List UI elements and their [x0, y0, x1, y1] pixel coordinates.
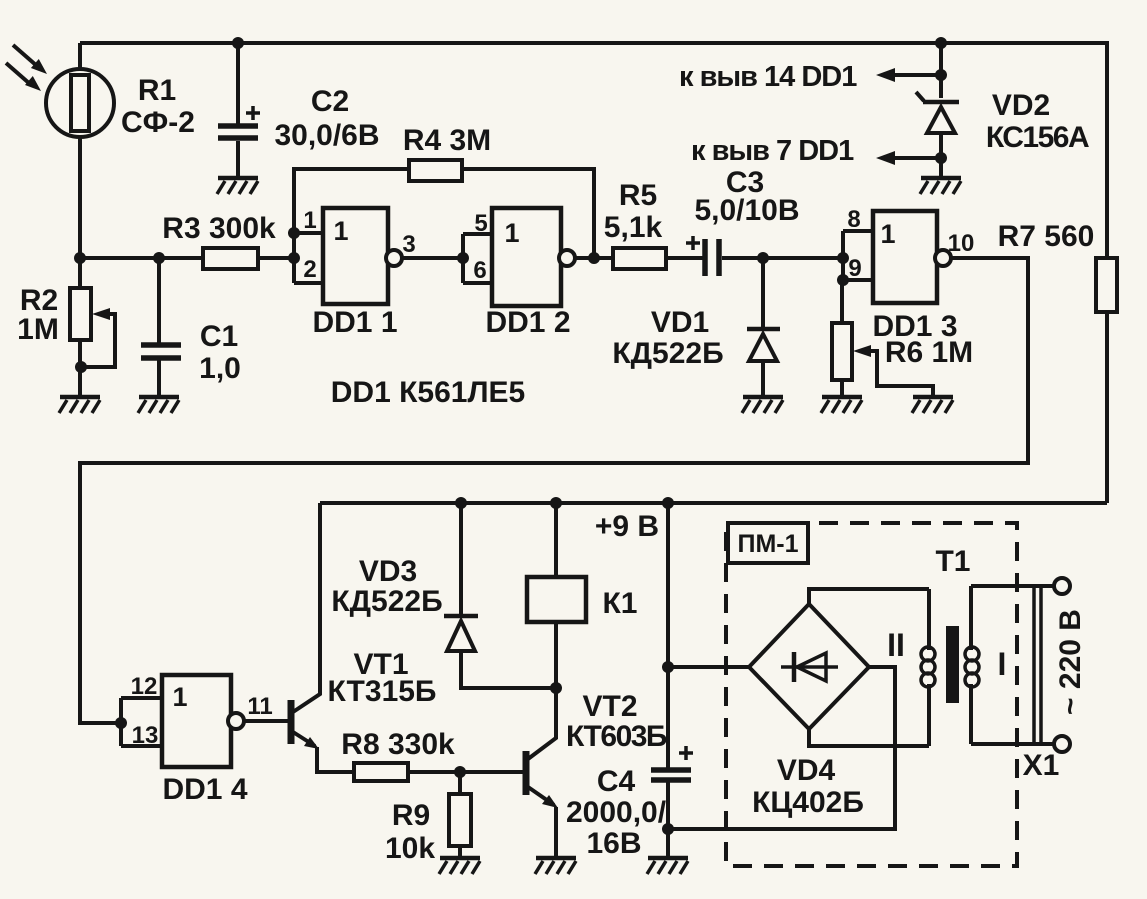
junction DD1.3 pin9 / R6 — [837, 274, 849, 286]
junction VD2 pin7 tap — [935, 152, 947, 164]
wire R2 wiper return — [81, 314, 115, 367]
wire R6 top lead — [840, 280, 844, 323]
svg-text:VT2: VT2 — [582, 690, 637, 723]
resistor R9 — [449, 794, 471, 846]
svg-text:I: I — [998, 646, 1007, 682]
X1 bottom terminal — [1054, 736, 1070, 752]
wire VD3 anode to VT2 collector node — [461, 651, 556, 688]
svg-text:DD1 4: DD1 4 — [162, 773, 247, 806]
svg-text:11: 11 — [247, 693, 272, 720]
resistor R6 (variable) — [832, 323, 871, 380]
ground C1 — [138, 397, 179, 413]
wire R2 top lead — [78, 258, 82, 288]
wire R6 bottom lead — [840, 380, 844, 396]
svg-text:1М: 1М — [17, 313, 59, 346]
X1 top terminal — [1054, 578, 1070, 594]
wire DD1.4 output to VT1 base — [244, 719, 288, 723]
diode VD3 — [444, 616, 478, 651]
wire R2 bottom lead to ground — [78, 340, 82, 396]
light arrow 1 — [13, 45, 47, 74]
svg-text:VD3: VD3 — [359, 555, 417, 588]
svg-text:ПМ-1: ПМ-1 — [737, 530, 798, 558]
svg-text:R7 560: R7 560 — [998, 220, 1095, 253]
resistor R7 — [1096, 258, 1117, 312]
wire VD3 branch vertical — [459, 503, 463, 614]
svg-text:16В: 16В — [586, 827, 641, 860]
wire VT1 collector to +9V rail — [293, 503, 320, 712]
svg-text:VD4: VD4 — [777, 754, 836, 787]
junction +9V / C4 — [662, 497, 674, 509]
junction DD1.2 output / R4 feedback — [588, 252, 600, 264]
wire bridge top corner to winding II top — [809, 589, 929, 604]
svg-text:12: 12 — [131, 673, 158, 700]
svg-text:R1: R1 — [138, 74, 176, 107]
ground VT2 — [535, 858, 576, 874]
svg-text:5,1k: 5,1k — [604, 211, 663, 244]
ground C2 — [217, 178, 258, 194]
svg-text:1: 1 — [333, 216, 348, 246]
gate DD1.1 — [294, 208, 402, 304]
svg-text:1: 1 — [504, 218, 519, 248]
junction R2 wiper — [75, 361, 87, 373]
wire bridge bottom corner to winding II bottom — [809, 729, 929, 746]
connector X1 blades — [1034, 586, 1041, 744]
photoresistor R1 — [46, 69, 114, 137]
wire R1 branch vertical — [78, 43, 82, 258]
junction top rail / C2 — [232, 37, 244, 49]
wire +9V rail — [320, 501, 1107, 505]
svg-text:R5: R5 — [619, 179, 657, 212]
bridge rectifier VD4 — [749, 604, 869, 729]
svg-text:КТ315Б: КТ315Б — [328, 675, 437, 708]
dashed enclosure PM-1 module — [726, 523, 1017, 866]
junction DD1.1 pin2 — [288, 252, 300, 264]
svg-text:10: 10 — [948, 230, 975, 257]
svg-text:30,0/6В: 30,0/6В — [274, 119, 379, 152]
transformer T1 core — [946, 626, 959, 703]
wire VD2 branch vertical — [939, 43, 943, 98]
svg-text:Т1: Т1 — [935, 545, 970, 578]
resistor R4 — [409, 160, 462, 181]
svg-text:1: 1 — [303, 207, 316, 234]
ground R2 — [59, 397, 100, 413]
wire C1 top lead — [157, 258, 161, 343]
transistor VT2 — [526, 751, 558, 808]
svg-text:КД522Б: КД522Б — [612, 337, 723, 370]
gate DD1.4 — [121, 675, 244, 767]
relay coil K1 — [527, 577, 586, 622]
ground R6 — [821, 397, 862, 413]
junction DD1.1 pin1 / R4 feedback — [288, 227, 300, 239]
wire top supply rail — [80, 43, 1107, 258]
junction C1 / main line — [153, 252, 165, 264]
svg-text:К1: К1 — [603, 587, 638, 620]
wire C4 bottom to ground — [666, 782, 670, 857]
junction R8 / R9 / VT2 base — [454, 766, 466, 778]
capacitor C4 (polarized) — [651, 746, 693, 780]
wire C2 bottom lead to ground — [236, 141, 240, 177]
svg-text:II: II — [887, 627, 905, 663]
capacitor C1 — [141, 345, 181, 358]
wire VD2 anode to ground — [939, 133, 943, 177]
junction R1 / main line — [74, 252, 86, 264]
junction DD1.2 input — [457, 252, 469, 264]
svg-text:DD1 1: DD1 1 — [312, 306, 397, 339]
resistor R3 — [203, 248, 258, 269]
svg-text:1: 1 — [880, 219, 895, 249]
junction +9V / VD3 — [455, 497, 467, 509]
wire VD1 branch — [761, 258, 765, 328]
svg-text:DD1 2: DD1 2 — [485, 306, 570, 339]
svg-text:C2: C2 — [311, 85, 349, 118]
transformer T1 winding II — [921, 589, 935, 746]
resistor R8 — [354, 763, 408, 781]
ground C4 — [647, 858, 688, 874]
svg-text:5,0/10В: 5,0/10В — [694, 194, 799, 227]
wire C2 top lead — [236, 43, 240, 124]
junction C4 / bridge plus — [662, 661, 674, 673]
wire R9 bottom lead — [458, 846, 462, 857]
svg-text:+9 В: +9 В — [595, 510, 659, 543]
svg-text:к выв 7 DD1: к выв 7 DD1 — [691, 135, 854, 167]
svg-text:КС156А: КС156А — [986, 121, 1089, 154]
svg-text:Х1: Х1 — [1023, 749, 1060, 782]
wire VD1 anode to ground — [761, 360, 765, 396]
svg-text:R3 300k: R3 300k — [162, 212, 276, 245]
wire K1 bottom lead — [554, 622, 558, 688]
wire R4 feedback loop — [294, 169, 594, 258]
junction VD1 / main line — [757, 252, 769, 264]
svg-text:КТ603Б: КТ603Б — [566, 720, 667, 753]
svg-text:3: 3 — [402, 231, 415, 258]
diode VD1 — [747, 329, 780, 361]
svg-text:6: 6 — [473, 257, 486, 284]
svg-text:VD1: VD1 — [651, 306, 709, 339]
svg-text:5: 5 — [474, 210, 487, 237]
light arrow 2 — [6, 63, 41, 91]
svg-text:R9: R9 — [392, 799, 430, 832]
arrowhead to pin 14 — [876, 68, 895, 82]
svg-text:КЦ402Б: КЦ402Б — [752, 786, 864, 819]
svg-text:СФ-2: СФ-2 — [121, 106, 195, 139]
wire DD1.3 output pin10 routed down and left to DD1.4 input — [80, 258, 1028, 723]
ground R6 wiper — [912, 397, 953, 413]
wire VT2 emitter to ground — [554, 807, 558, 857]
wire R9 top lead — [458, 772, 462, 794]
svg-text:DD1 К561ЛЕ5: DD1 К561ЛЕ5 — [331, 376, 525, 409]
ground R9 — [439, 858, 480, 874]
svg-text:10k: 10k — [385, 832, 435, 865]
transistor VT1 — [291, 700, 319, 749]
svg-text:C4: C4 — [597, 765, 636, 798]
resistor R5 — [613, 248, 666, 269]
wire R8 to VT2 base — [408, 770, 523, 774]
svg-text:8: 8 — [847, 206, 860, 233]
wire VT1 emitter to R8 — [317, 747, 354, 772]
junction DD1.4 input — [115, 717, 127, 729]
wire DD1.2 output through R5 to C3 — [573, 256, 703, 260]
svg-text:1,0: 1,0 — [199, 352, 241, 385]
wire bridge right corner down to C4 minus node — [668, 667, 895, 829]
capacitor C3 (polarized) — [686, 236, 719, 276]
svg-text:R8 330k: R8 330k — [341, 728, 455, 761]
junction +9V / K1 — [550, 497, 562, 509]
junction VD3 / K1 / VT2 collector — [550, 682, 562, 694]
wire DD1.1 output to DD1.2 input — [401, 256, 463, 260]
svg-text:2: 2 — [303, 256, 316, 283]
wire R6 wiper to ground — [866, 351, 933, 397]
svg-text:к выв 14 DD1: к выв 14 DD1 — [679, 61, 857, 93]
svg-text:R4 3М: R4 3М — [403, 124, 491, 157]
wire C4 branch from +9V rail — [666, 503, 670, 768]
svg-text:~ 220 В: ~ 220 В — [1054, 609, 1087, 715]
svg-text:R6 1М: R6 1М — [885, 336, 973, 369]
junction C4 minus / bridge return — [662, 823, 674, 835]
junction DD1.3 input — [837, 252, 849, 264]
gate DD1.2 — [463, 208, 575, 306]
svg-text:VD2: VD2 — [992, 89, 1050, 122]
svg-text:КД522Б: КД522Б — [331, 585, 442, 618]
wire VT2 collector vertical — [528, 688, 556, 759]
wire K1 top lead — [554, 503, 558, 577]
resistor R2 (variable) — [70, 288, 110, 340]
wire R7 bottom lead to +9V rail — [1105, 312, 1109, 503]
svg-text:13: 13 — [132, 722, 159, 749]
transformer T1 winding I — [965, 586, 979, 744]
ground VD1 — [742, 397, 783, 413]
wire arrow to pin 7 DD1 — [894, 156, 941, 160]
PM-1 label box — [728, 523, 808, 563]
gate DD1.3 — [843, 211, 951, 303]
svg-text:2000,0/: 2000,0/ — [566, 796, 667, 829]
wire C4 node to bridge left corner — [668, 665, 749, 669]
wire winding I to X1 bottom terminal — [971, 742, 1054, 746]
junction top rail / VD2 — [935, 37, 947, 49]
arrowhead to pin 7 — [876, 151, 895, 165]
wire arrow to pin 14 DD1 — [894, 73, 941, 77]
wire winding I to X1 top terminal — [971, 584, 1054, 588]
wire main signal line left (R1/C1/R3 to DD1.1 input) — [80, 256, 294, 260]
svg-text:9: 9 — [848, 255, 861, 282]
svg-text:C1: C1 — [200, 320, 238, 353]
capacitor C2 (polarized) — [218, 106, 260, 138]
wire C3 to DD1.3 input — [722, 256, 843, 260]
ground VD2 — [920, 178, 961, 194]
svg-text:1: 1 — [172, 682, 187, 712]
zener diode VD2 — [916, 92, 959, 133]
wire C1 bottom lead to ground — [157, 360, 161, 396]
junction VD2 pin14 tap — [935, 69, 947, 81]
